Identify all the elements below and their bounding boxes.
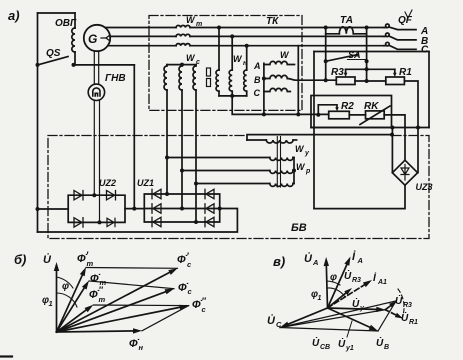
svg-text:С: С	[421, 45, 429, 56]
svg-text:а): а)	[8, 8, 20, 23]
diode UZ1 row1 right	[205, 189, 214, 198]
wire UZ3 bottom return	[314, 185, 405, 208]
node Wn common	[230, 94, 234, 98]
dashed arc IA1 to UR1	[398, 289, 404, 318]
vector IA1 dashed	[328, 271, 388, 308]
R3 wiper arrow	[344, 69, 348, 77]
diode UZ2 bottom-left	[74, 218, 83, 227]
wire W row B to R3	[287, 79, 336, 81]
resistor R3	[331, 67, 355, 85]
svg-text:RK: RK	[364, 101, 379, 112]
svg-text:SA: SA	[348, 50, 361, 60]
wires TA secondary down	[326, 34, 367, 62]
wire bottom rail to UZ3 left	[390, 126, 394, 173]
diode UZ2 top-right	[107, 191, 116, 200]
wire common bottom rail	[311, 127, 429, 129]
svg-text:т: т	[99, 295, 106, 304]
switch QS	[36, 48, 135, 67]
wire RK to UZ3 top	[384, 115, 405, 160]
vector Phi n	[57, 328, 144, 352]
vector UR3 right	[385, 295, 412, 310]
wire R1 right down to UZ3	[404, 81, 420, 173]
wires Wc down to UZ1	[167, 90, 196, 222]
wire taps down to Wn	[219, 28, 247, 71]
label a)	[8, 8, 20, 23]
angle phi1 arc v	[311, 288, 345, 302]
shaft G to GNV	[94, 51, 98, 84]
svg-text:U̇: U̇	[312, 337, 320, 349]
bus phase C	[108, 45, 384, 47]
svg-text:″: ″	[99, 285, 104, 295]
switch SA	[324, 50, 369, 63]
vector Uy	[328, 298, 386, 313]
wire R2 to RK	[349, 114, 365, 116]
vector Phi t	[57, 273, 107, 332]
vector IA	[328, 250, 363, 308]
label Uy1 with leader	[338, 321, 354, 352]
vector UC	[267, 308, 328, 329]
stray mark near QF	[405, 10, 412, 18]
vector UB	[328, 308, 390, 351]
winding Wc	[164, 53, 200, 90]
wire SA left down to row B node	[324, 61, 328, 82]
label phase A out	[420, 26, 428, 37]
winding Wp row 1	[165, 156, 294, 161]
rectifier UZ1	[137, 178, 220, 222]
diode UZ2 top-left	[74, 191, 83, 200]
svg-text:U̇: U̇	[267, 314, 276, 327]
svg-text:т: т	[87, 259, 94, 268]
svg-text:R1: R1	[409, 319, 418, 326]
angle phi arc	[57, 277, 74, 292]
vector Phi''c	[57, 296, 207, 332]
svg-text:А: А	[312, 258, 318, 267]
vector UR1 dashed	[385, 310, 418, 326]
vector Phi'c	[57, 251, 193, 332]
svg-text:т: т	[196, 21, 202, 28]
node UZ1 phase a	[165, 192, 169, 196]
winding Wu	[247, 140, 310, 157]
svg-text:у1: у1	[345, 345, 354, 352]
bus phase A	[105, 27, 384, 29]
svg-text:ТА: ТА	[340, 15, 353, 26]
svg-text:ТК: ТК	[266, 16, 279, 27]
node UZ1 phase c	[194, 220, 198, 224]
label UCB	[312, 337, 330, 351]
winding W secondary	[253, 50, 294, 114]
svg-text:QS: QS	[46, 48, 61, 59]
box BV dash-dot	[48, 136, 429, 239]
transformer TA	[324, 15, 369, 34]
pilot exciter GNV	[88, 73, 125, 101]
diode UZ2 bottom-right	[107, 218, 115, 226]
wire regulator loop left down to UZ3 return	[313, 52, 315, 209]
svg-text:U̇: U̇	[344, 270, 352, 282]
wire regulator loop top	[314, 51, 429, 53]
vector Phi''t	[57, 285, 106, 332]
wire top-left horizontal	[38, 12, 76, 14]
winding Wp row 3	[194, 162, 311, 186]
svg-text:A: A	[253, 61, 261, 71]
winding Wp row 2	[180, 169, 294, 174]
svg-text:в): в)	[273, 254, 285, 269]
wire QS down to rectifier node	[133, 65, 135, 209]
svg-text:U̇: U̇	[338, 338, 346, 350]
diode UZ1 row3 left	[152, 217, 161, 226]
node GNV wire on UZ2 top	[92, 193, 96, 197]
wire regulator loop right	[428, 52, 430, 128]
svg-text:φ: φ	[330, 272, 337, 283]
core bars TK	[207, 68, 211, 87]
svg-text:U̇: U̇	[43, 253, 52, 266]
wire R3 to R1	[355, 80, 386, 82]
label TK	[266, 16, 279, 27]
svg-text:ГНВ: ГНВ	[105, 73, 126, 84]
vector UR3 upper	[328, 270, 362, 308]
svg-text:СВ: СВ	[320, 344, 330, 351]
node bus B tap	[230, 34, 234, 38]
diagram v label	[273, 254, 285, 269]
wire UZ2 left tap	[36, 207, 69, 211]
svg-text:R3: R3	[331, 67, 344, 78]
wiper bar R3-R1	[346, 67, 395, 71]
rectifier UZ2	[68, 178, 125, 222]
winding OVG	[55, 13, 77, 65]
svg-text:1: 1	[318, 295, 322, 302]
svg-text:U̇: U̇	[376, 337, 384, 349]
svg-text:R3: R3	[352, 277, 361, 284]
vector Phi't	[57, 250, 94, 332]
wire UZ1 right tap to bottom rail	[38, 207, 238, 233]
svg-text:U̇: U̇	[352, 298, 360, 310]
wire Wn common / bus C tap to R2	[232, 46, 329, 117]
corner mark bottom-left	[0, 355, 12, 357]
box R2 RK unit	[311, 96, 392, 128]
core bars Wu-Wp	[277, 137, 280, 188]
diode UZ1 row1 left	[152, 189, 161, 198]
angle phi1 arc	[42, 293, 77, 308]
svg-text:ОВГ: ОВГ	[55, 18, 77, 29]
node UZ1 phase b	[180, 207, 184, 211]
box TK dash-dot	[149, 16, 302, 111]
diode UZ1 row3 right	[205, 217, 214, 226]
svg-text:R2: R2	[341, 101, 354, 112]
wire Wu top link	[247, 133, 394, 140]
svg-text:G: G	[88, 32, 97, 46]
svg-text:А: А	[357, 256, 363, 265]
diode UZ1 row2 left	[152, 204, 161, 213]
svg-text:р: р	[305, 168, 311, 175]
R2 wiper arrow	[316, 105, 339, 117]
diode UZ1 row2 right	[205, 204, 214, 213]
vector UA	[304, 252, 329, 308]
wire left vertical rail	[37, 13, 39, 232]
wire UZ2 right to UZ1 left	[125, 207, 144, 211]
construction lines b	[86, 268, 189, 331]
R1 wiper arrow	[393, 69, 397, 77]
vector Phi c	[57, 282, 193, 332]
svg-text:А1: А1	[377, 279, 387, 286]
svg-text:б): б)	[14, 252, 26, 267]
node bus C tap	[245, 44, 249, 48]
node GNV wire on UZ2 bottom	[98, 220, 102, 224]
label BV	[291, 222, 307, 234]
label phase B out	[421, 36, 428, 47]
resistor R1	[386, 67, 412, 85]
svg-text:R1: R1	[399, 67, 412, 78]
diagram b axis U	[14, 252, 59, 332]
svg-text:UZ1: UZ1	[137, 178, 154, 188]
rectifier UZ3	[392, 160, 432, 192]
winding Wt series coils	[176, 15, 202, 46]
svg-text:БВ: БВ	[291, 222, 307, 234]
wire Wp common right	[292, 158, 296, 184]
wire TA right tap down	[365, 61, 369, 83]
generator G1	[84, 25, 110, 51]
wires GNV to UZ2	[94, 101, 99, 223]
svg-text:φ: φ	[62, 281, 69, 292]
svg-text:B: B	[254, 75, 261, 85]
bus phase B	[110, 35, 384, 37]
svg-text:н: н	[139, 343, 144, 352]
svg-text:QF: QF	[398, 15, 413, 26]
svg-text:с: с	[196, 59, 200, 66]
thermistor RK	[360, 101, 390, 125]
svg-text:В: В	[384, 344, 389, 351]
angle phi arc v	[327, 272, 340, 285]
svg-text:C: C	[254, 88, 261, 98]
node bus A tap	[217, 26, 221, 30]
construction lines v	[280, 301, 396, 331]
svg-text:1: 1	[49, 299, 53, 308]
svg-text:U̇: U̇	[304, 252, 313, 265]
breaker QF	[384, 15, 416, 49]
winding Wn	[216, 54, 248, 96]
resistor R2	[329, 101, 355, 119]
svg-text:UZ3: UZ3	[416, 182, 433, 192]
svg-text:UZ2: UZ2	[99, 178, 116, 188]
label phase C out	[421, 45, 429, 56]
